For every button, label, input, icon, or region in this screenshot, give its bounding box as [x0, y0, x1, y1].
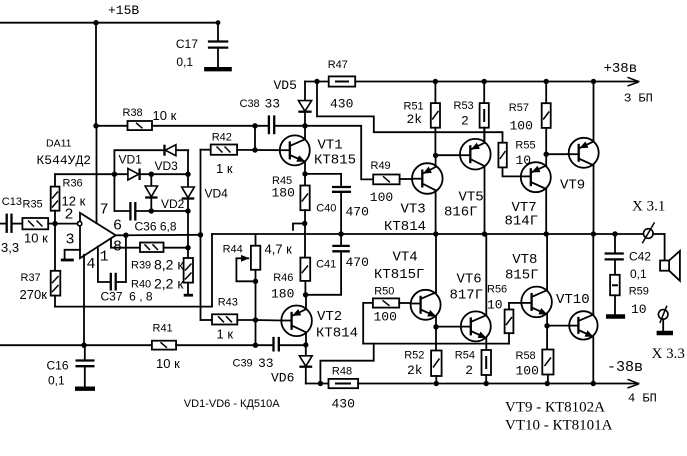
node C17 tap [216, 20, 221, 25]
label R48 430 [332, 366, 355, 412]
svg-text:R39: R39 [131, 260, 151, 272]
node VT5 rail [482, 231, 487, 236]
wire VT5 base [436, 154, 461, 156]
svg-text:R59: R59 [629, 286, 649, 298]
svg-text:2,2 к: 2,2 к [154, 276, 184, 292]
svg-text:+38в: +38в [604, 61, 638, 77]
label C38 33 [240, 97, 281, 112]
wire R49 to VT3 base [400, 178, 413, 180]
node VT8 emitter [544, 323, 549, 328]
svg-text:180: 180 [272, 186, 295, 201]
transistor VT9 [569, 82, 599, 235]
svg-text:DA11: DA11 [46, 138, 72, 150]
svg-text:VT9 - КТ8102А: VT9 - КТ8102А [505, 400, 605, 416]
node VT3 rail [433, 231, 438, 236]
node R45 stub [302, 221, 307, 226]
svg-text:КТ815Г: КТ815Г [374, 267, 424, 283]
svg-text:2: 2 [65, 207, 74, 224]
svg-text:817Г: 817Г [450, 288, 484, 304]
label DA11 K544UD2 [37, 138, 92, 169]
transistor VT3 [412, 155, 443, 234]
svg-text:R50: R50 [374, 286, 394, 298]
label VT5 816G [444, 190, 484, 221]
wire R38 to C38 node [152, 125, 268, 127]
label VT2 KT814 [316, 309, 358, 342]
wire R44 column down [255, 281, 257, 345]
diode VD1 [128, 169, 188, 181]
transistor VT6 [461, 234, 491, 350]
resistor R48 [329, 379, 359, 388]
svg-text:VT1: VT1 [318, 138, 343, 154]
wire VT9 base [546, 153, 569, 155]
label X3.3 [652, 346, 685, 362]
wire pin8 drop [111, 239, 140, 248]
wire output drop to R39 [125, 235, 127, 282]
svg-text:C41: C41 [316, 259, 336, 271]
resistor R43 [201, 314, 256, 324]
label VT10 type [505, 418, 613, 434]
svg-text:C42: C42 [629, 250, 651, 264]
svg-text:X 3.1: X 3.1 [632, 199, 665, 215]
svg-text:VD5: VD5 [274, 78, 297, 93]
wire +38V rail left [305, 81, 329, 83]
wire VT2 base [256, 319, 282, 322]
resistor R53 [480, 82, 489, 142]
node R44 bottom [253, 279, 258, 284]
svg-text:VD1-VD6 - КД510А: VD1-VD6 - КД510А [184, 398, 280, 410]
svg-text:6: 6 [113, 218, 122, 235]
svg-text:VD6: VD6 [271, 371, 294, 386]
svg-text:814Г: 814Г [505, 214, 539, 230]
label R52 2k [404, 350, 424, 379]
wire R37 to R44 riser [55, 234, 212, 307]
node C42 tap [612, 231, 617, 236]
transistor VT2 [281, 295, 312, 345]
transistor VT5 [460, 128, 491, 234]
svg-text:R55: R55 [515, 140, 535, 152]
svg-text:1 к: 1 к [217, 327, 234, 342]
svg-text:VD1: VD1 [119, 153, 143, 167]
label 3 BP [624, 92, 653, 106]
svg-text:К544УД2: К544УД2 [37, 153, 92, 168]
label R37 270k [20, 272, 48, 302]
wire C41 bottom leg [306, 252, 342, 294]
node VT2 emitter [303, 342, 308, 347]
svg-text:270к: 270к [20, 287, 48, 302]
label R51 2k [404, 101, 424, 128]
label VT7 814G [505, 200, 539, 230]
svg-text:R47: R47 [328, 59, 348, 71]
svg-text:C38: C38 [240, 98, 260, 110]
svg-text:C40: C40 [316, 203, 336, 215]
capacitor C42 [605, 234, 624, 275]
svg-text:0,1: 0,1 [176, 55, 193, 69]
label 4 BP [628, 392, 657, 406]
node C36 wire VD4 bottom [185, 208, 190, 213]
svg-text:R44: R44 [223, 244, 243, 256]
node VT3 top [433, 153, 438, 158]
label C13 3,3 [1, 196, 22, 255]
node VT9 rail [591, 231, 596, 236]
node junction +15V to R38 column [93, 20, 98, 25]
svg-text:C36 6,8: C36 6,8 [135, 220, 177, 234]
resistor R57 [542, 82, 551, 155]
svg-text:430: 430 [332, 397, 355, 412]
label R40 2,2k [131, 276, 184, 292]
wire VT8 base [509, 302, 521, 304]
label R42 1k [212, 132, 233, 177]
resistor R36 [51, 174, 60, 223]
svg-text:R36: R36 [63, 178, 83, 190]
svg-text:470: 470 [346, 255, 369, 270]
arrow +38V rail end [628, 77, 639, 86]
wire pin7 V+ [96, 126, 98, 223]
capacitor C40 [332, 187, 351, 234]
svg-text:180: 180 [271, 287, 294, 302]
resistor R54 [482, 350, 492, 384]
transistor VT10 [569, 234, 597, 384]
resistor R50 [363, 298, 411, 343]
node R54 bottom [484, 381, 489, 386]
label +38v [604, 61, 638, 77]
label R46 180 [271, 272, 294, 302]
resistor R52 [431, 327, 442, 384]
wire emitter to C40 [305, 174, 341, 186]
transistor VT1 [280, 126, 310, 174]
svg-text:2k: 2k [407, 112, 423, 127]
svg-text:R35: R35 [23, 199, 43, 211]
node C36 wire VD2 bottom [149, 208, 154, 213]
label VD1-VD6 KD510A [184, 398, 280, 410]
resistor R39 [140, 243, 188, 253]
wire inverting input [55, 223, 77, 225]
wire -38V rail left [306, 383, 329, 385]
label VT10 [556, 292, 590, 308]
label R59 10 [629, 286, 649, 318]
diode VD3 [165, 145, 176, 156]
label VD4 [205, 187, 229, 201]
label C41 470 [316, 255, 369, 271]
label R49 100 [370, 160, 393, 205]
svg-text:10: 10 [487, 298, 503, 313]
svg-text:R37: R37 [21, 272, 41, 284]
svg-text:3: 3 [66, 232, 75, 249]
wire output rail main [212, 233, 643, 235]
svg-text:C39: C39 [233, 358, 253, 370]
node C40-C41 on output rail [338, 231, 343, 236]
wire C38-R42 column [254, 126, 256, 150]
label +15V [108, 3, 139, 18]
wire +15V rail [0, 22, 218, 24]
svg-text:R43: R43 [218, 297, 238, 309]
node VD4 top [185, 172, 190, 177]
label R55 10 [515, 140, 535, 169]
svg-text:R46: R46 [273, 272, 293, 284]
label C39 33 [233, 356, 274, 371]
capacitor C41 [332, 234, 350, 251]
label C42 0,1 [629, 250, 651, 282]
node output [123, 233, 128, 238]
label C17 0,1 [176, 37, 198, 69]
label -38v [607, 359, 643, 376]
capacitor C13 [0, 214, 22, 233]
resistor R58 [542, 326, 553, 384]
svg-text:10: 10 [631, 302, 647, 317]
resistor R37 [51, 224, 61, 307]
wire R47 bias zigzag to R55 [317, 82, 503, 143]
ground op-amp pin3 [61, 259, 74, 262]
ground terminal X3.3 [657, 331, 673, 335]
svg-text:VT10 - КТ8101А: VT10 - КТ8101А [505, 418, 613, 434]
label C16 0,1 [47, 359, 69, 388]
node R48 left [318, 381, 323, 386]
svg-text:8,2 к: 8,2 к [154, 257, 184, 273]
svg-text:VT2: VT2 [317, 309, 342, 325]
label VD5 [274, 78, 297, 93]
label R44 4,7k [223, 242, 293, 257]
svg-text:R52: R52 [404, 350, 424, 362]
resistor R40 [184, 258, 193, 294]
svg-text:C37 6 , 8: C37 6 , 8 [101, 290, 153, 304]
svg-text:0,1: 0,1 [48, 374, 65, 388]
transistor VT4 [411, 234, 441, 327]
resistor R38 [128, 121, 153, 130]
label C36 6,8 [135, 220, 177, 234]
svg-text:VT3: VT3 [401, 202, 426, 218]
label R47 430 [328, 59, 354, 112]
node VT7 top junction [544, 152, 549, 157]
svg-text:2: 2 [461, 114, 469, 129]
svg-text:4,7 к: 4,7 к [265, 242, 293, 257]
node VT1 collector [302, 123, 307, 128]
svg-text:4 БП: 4 БП [628, 392, 657, 406]
label VT3 KT814 [384, 202, 426, 236]
label C40 470 [316, 203, 369, 220]
svg-text:КТ814: КТ814 [384, 219, 426, 235]
svg-text:VT8: VT8 [512, 252, 537, 268]
label pin numbers [65, 202, 123, 274]
svg-text:C13: C13 [2, 196, 22, 208]
label C37 6,8 [101, 290, 153, 304]
wire VT6 base [436, 326, 461, 328]
resistor R46 [300, 258, 310, 295]
label VD3 [155, 159, 179, 173]
svg-text:100: 100 [370, 190, 393, 205]
svg-text:VD2: VD2 [161, 197, 185, 211]
connector X3.3 [658, 306, 668, 331]
svg-text:VD4: VD4 [205, 187, 229, 201]
node R58 bottom [545, 381, 550, 386]
wire feedback column x=200.5 [200, 150, 202, 320]
svg-text:VT10: VT10 [556, 292, 590, 308]
svg-text:7: 7 [100, 202, 109, 219]
capacitor C16 [76, 345, 95, 386]
svg-text:1 к: 1 к [216, 161, 233, 176]
label VD1 [119, 153, 143, 167]
svg-text:З БП: З БП [624, 92, 653, 106]
capacitor C38 [269, 115, 305, 134]
wire +38V rail [355, 81, 638, 83]
label R58 100 [516, 350, 539, 379]
svg-text:-38в: -38в [607, 359, 643, 376]
svg-text:R38: R38 [123, 107, 143, 119]
wire V+ column down to R38 node [95, 23, 97, 126]
node input junction [52, 221, 57, 226]
node R57 top [544, 79, 549, 84]
node VT9 collector top [591, 79, 596, 84]
svg-text:2k: 2k [407, 363, 423, 378]
transistor VT7 [521, 154, 551, 234]
svg-text:100: 100 [374, 310, 397, 325]
svg-text:100: 100 [510, 119, 533, 134]
transistor VT8 [521, 234, 552, 326]
node R52 bottom [434, 381, 439, 386]
node output to feedback column [198, 232, 203, 237]
wire mid y=174 to diode network [55, 173, 128, 175]
svg-text:КТ815: КТ815 [314, 153, 356, 169]
svg-text:R58: R58 [516, 350, 536, 362]
ground under C16 [75, 387, 95, 391]
node R51 top [433, 79, 438, 84]
svg-text:3,3: 3,3 [1, 240, 19, 255]
node R53 top [482, 79, 487, 84]
wire base bias to R49 [305, 126, 373, 180]
wire op-amp output [116, 234, 201, 237]
wire -38V rail [358, 383, 638, 385]
label VT4 KT815G [374, 250, 424, 284]
label R38 10k [123, 107, 177, 123]
ground under R40 [184, 294, 193, 297]
resistor R55 [498, 143, 521, 177]
label R39 8,2k [131, 257, 184, 273]
svg-text:10 к: 10 к [24, 231, 48, 246]
svg-text:C17: C17 [176, 37, 198, 51]
node R39 right [185, 245, 190, 250]
diode VD2 [145, 174, 157, 211]
svg-text:КТ814: КТ814 [316, 326, 358, 342]
svg-text:816Г: 816Г [444, 205, 478, 221]
svg-text:VT9: VT9 [560, 178, 585, 194]
svg-text:33: 33 [258, 356, 274, 371]
label X3.1 [632, 199, 665, 215]
label R54 2 [455, 350, 475, 379]
resistor R56 [505, 303, 514, 344]
svg-text:1: 1 [100, 249, 109, 266]
label R50 100 [374, 286, 397, 325]
svg-text:+15В: +15В [108, 3, 139, 18]
svg-text:815Г: 815Г [505, 268, 539, 284]
svg-text:VT6: VT6 [457, 272, 482, 288]
label VT1 KT815 [314, 138, 356, 169]
node VT4 emitter [433, 324, 438, 329]
capacitor C36 [114, 202, 188, 221]
resistor R41 [152, 341, 273, 350]
wire diode net top and sides [114, 150, 188, 211]
node R38 left junction [93, 123, 98, 128]
wire bottom rail y=345 [0, 344, 152, 346]
label VT9 [560, 178, 585, 194]
resistor R45 [300, 174, 309, 258]
label R57 100 [509, 102, 533, 134]
node VD2 top [149, 172, 154, 177]
ground under R59 [606, 314, 625, 318]
node C38 left [252, 123, 257, 128]
svg-text:R49: R49 [371, 160, 391, 172]
node VT7 rail [544, 231, 549, 236]
resistor R42 [201, 145, 282, 155]
speaker [660, 234, 680, 281]
label R53 2 [454, 100, 474, 129]
label R36 12k [62, 178, 86, 209]
resistor R51 [431, 82, 440, 156]
svg-text:R57: R57 [509, 102, 529, 114]
label VD2 [161, 197, 185, 211]
svg-text:10 к: 10 к [156, 356, 180, 371]
resistor R49 [373, 175, 399, 185]
capacitor C17 [208, 23, 228, 67]
svg-text:VT5: VT5 [459, 190, 484, 206]
svg-text:10 к: 10 к [153, 108, 177, 123]
node diode net left mid [112, 172, 117, 177]
svg-text:100: 100 [516, 364, 539, 379]
svg-text:470: 470 [346, 205, 369, 220]
diode VD4 [182, 150, 195, 258]
diode VD5 [298, 82, 311, 126]
node R44 column bottom [253, 343, 258, 348]
label R43 1k [217, 297, 238, 342]
resistor R47 [329, 76, 356, 86]
svg-text:R54: R54 [455, 350, 475, 362]
label VT8 815G [505, 252, 539, 284]
svg-text:VT4: VT4 [393, 250, 418, 266]
label R45 180 [272, 175, 295, 201]
label VD6 [271, 371, 294, 386]
resistor R59 [610, 275, 620, 314]
label R41 10k [153, 323, 181, 372]
svg-text:R48: R48 [332, 366, 352, 378]
svg-text:430: 430 [330, 97, 353, 112]
resistor R35 [22, 218, 55, 229]
wire pin4 V- drop [83, 255, 85, 345]
capacitor C39 [274, 337, 306, 352]
svg-text:0,1: 0,1 [630, 267, 647, 281]
label R35 10k [23, 199, 49, 246]
svg-text:4: 4 [87, 256, 96, 273]
node VT1 emitter [302, 171, 307, 176]
node R47 left [314, 79, 319, 84]
svg-text:R42: R42 [212, 132, 232, 144]
svg-text:R56: R56 [487, 284, 507, 296]
node R43 right [253, 317, 258, 322]
wire driver bus W2 [363, 343, 509, 345]
wire stub hook [293, 224, 305, 230]
wire R38 input [96, 125, 128, 127]
wire pin3 to ground [65, 250, 80, 259]
node pin4 on bottom wire [81, 343, 86, 348]
svg-text:X 3.3: X 3.3 [652, 346, 685, 362]
label R56 10 [487, 284, 507, 313]
svg-text:12 к: 12 к [62, 194, 86, 209]
ground under C17 [204, 67, 232, 71]
diode VD6 [299, 345, 312, 384]
node VT2 collector junction [303, 292, 308, 297]
potentiometer R44 [236, 234, 260, 281]
svg-text:C16: C16 [47, 359, 69, 373]
label VT6 817G [450, 272, 484, 304]
svg-text:2: 2 [465, 363, 473, 378]
node R42 output [252, 147, 257, 152]
node VT10 emitter rail [591, 381, 596, 386]
